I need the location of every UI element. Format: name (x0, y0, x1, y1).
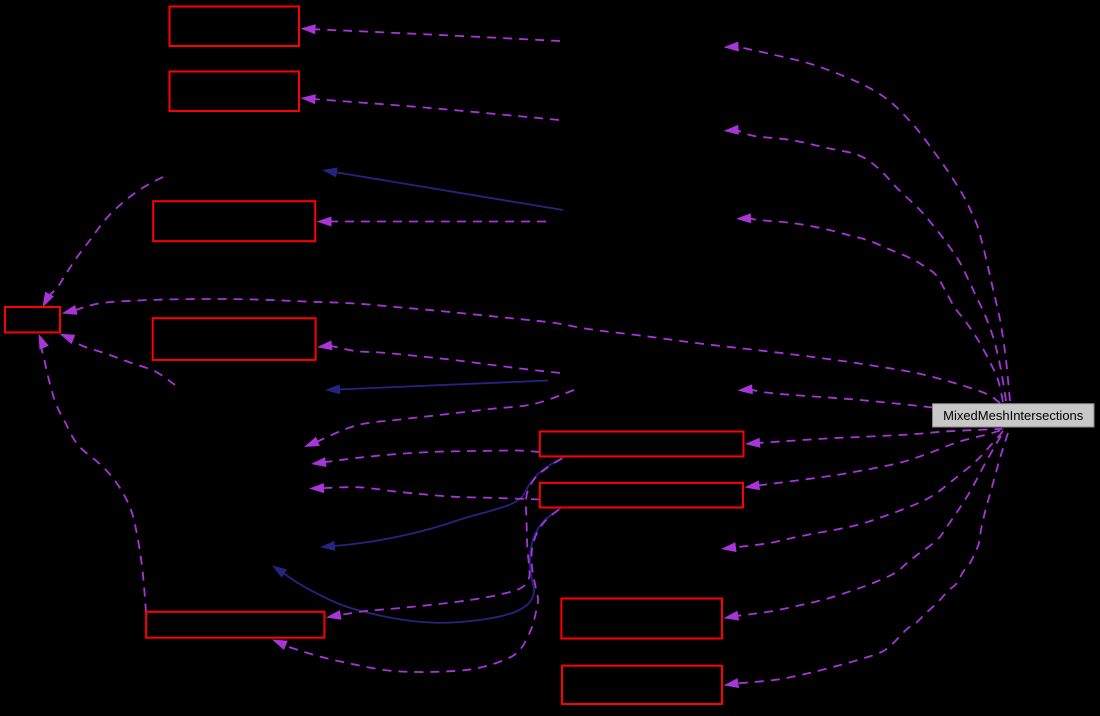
svg-text:MixedMeshIntersections: MixedMeshIntersections (943, 408, 1084, 423)
